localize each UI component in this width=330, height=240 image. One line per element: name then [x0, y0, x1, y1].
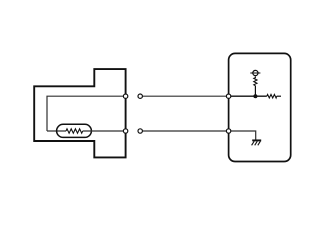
junction dot [253, 94, 257, 98]
ground hatch 3 [258, 141, 261, 145]
module input circle lower [226, 129, 230, 133]
wire upper inner [47, 96, 126, 131]
terminal circle holder lower [123, 129, 127, 133]
ground bar [252, 139, 261, 141]
wire lower harness [140, 130, 228, 132]
wire lower inner right [83, 130, 126, 132]
connector circle lower [138, 129, 142, 133]
wire R2 to junction [254, 86, 256, 97]
wire inside lower [229, 131, 256, 140]
module input circle upper [226, 94, 230, 98]
wire lower inner left [47, 130, 66, 132]
wire stub right of R1 [277, 95, 281, 97]
bulb holder outline [34, 69, 125, 157]
ground hatch 2 [255, 141, 258, 145]
resistor R2 vertical [254, 76, 257, 85]
lamp filament zigzag [66, 129, 83, 133]
wire inside upper [229, 95, 267, 97]
connector circle upper [138, 94, 142, 98]
resistor R1 horizontal [267, 94, 277, 98]
lamp bulb B1 [57, 124, 92, 137]
module box [229, 53, 291, 161]
ground hatch 1 [252, 141, 255, 145]
terminal circle holder upper [123, 94, 127, 98]
wire upper harness [140, 95, 228, 97]
supply terminal line [250, 72, 260, 74]
supply terminal circle [253, 70, 258, 75]
